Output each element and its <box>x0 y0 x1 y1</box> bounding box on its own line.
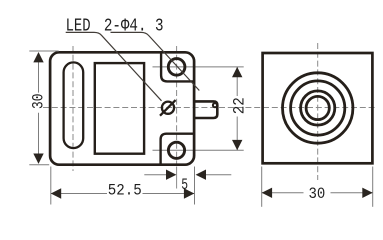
dim 30 right: right extension line <box>372 167 374 207</box>
window rectangle <box>95 63 144 154</box>
svg-text:30: 30 <box>309 185 326 203</box>
dim 30 right: left arrow <box>262 188 272 198</box>
dim 22: text <box>230 97 248 114</box>
dim 52.5: dimension line <box>51 193 107 195</box>
dim 52.5: right arrow <box>184 188 194 198</box>
dim 52.5: left arrow <box>51 188 61 198</box>
LED leader line <box>66 32 162 100</box>
right view vertical centerline <box>317 43 319 180</box>
bottom-right pocket <box>161 134 193 164</box>
circle 2 <box>291 81 345 135</box>
dim 30 left: text <box>29 94 47 110</box>
top hole horizontal centerline <box>153 66 244 68</box>
dim 30 left: top extension line <box>29 50 58 52</box>
stadium slot <box>64 62 84 148</box>
circle 3 <box>301 91 335 125</box>
dim 30 left: bottom arrow <box>33 154 43 164</box>
dim 5: left line and arrow <box>144 174 166 176</box>
stadium slot vertical centerline <box>72 46 74 171</box>
LED indicator <box>162 102 174 114</box>
dim 30 left: top arrow <box>33 52 43 62</box>
svg-text:5: 5 <box>181 176 188 194</box>
holes vertical centerline <box>176 46 178 164</box>
svg-text:30: 30 <box>29 94 47 110</box>
svg-text:22: 22 <box>230 97 248 114</box>
dim 22: dimension line <box>236 67 238 96</box>
dim 52.5: right extension line <box>194 167 196 205</box>
plug detail circle <box>213 103 217 107</box>
dim 30 right: left extension line <box>261 167 263 207</box>
svg-text:2-Φ4. 3: 2-Φ4. 3 <box>104 17 164 37</box>
dim 22: bottom arrow <box>232 140 242 150</box>
dim 5: right line and arrow <box>206 174 231 176</box>
svg-text:52.5: 52.5 <box>108 182 142 200</box>
outer circle <box>283 73 353 143</box>
dim 52.5: left extension line <box>50 167 52 205</box>
dim 30 right: dimension line <box>262 192 304 194</box>
svg-text:LED: LED <box>66 17 91 37</box>
main horizontal centerline <box>43 107 376 109</box>
bottom hole <box>168 142 184 158</box>
hole leader line <box>111 32 200 90</box>
dim 30 left: bottom extension line <box>29 164 49 166</box>
body outline left view <box>50 52 194 164</box>
top-right pocket <box>161 54 193 82</box>
top hole <box>168 59 185 76</box>
inner circle <box>306 96 329 119</box>
LED slash <box>160 100 176 116</box>
dim 22: top arrow <box>232 67 242 77</box>
right view square <box>263 53 373 163</box>
dim 30 left: dimension line <box>38 58 40 93</box>
bottom hole horizontal centerline <box>153 149 244 151</box>
dim 30 right: right arrow <box>362 188 372 198</box>
connector plug <box>195 101 217 118</box>
